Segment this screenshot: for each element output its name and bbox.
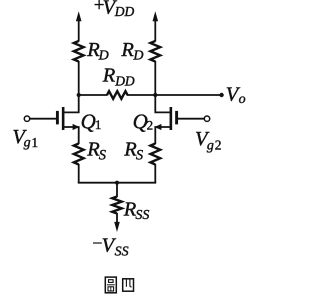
label Vg1 xyxy=(12,126,38,151)
caption character si (four) xyxy=(123,279,134,291)
label RS right xyxy=(123,138,144,163)
resistor RSS xyxy=(112,197,122,214)
caption character tu (figure) xyxy=(105,277,116,293)
wire gate Q1 xyxy=(30,118,56,120)
svg-text:Q: Q xyxy=(81,110,96,134)
node tail junction xyxy=(115,181,119,185)
label RDD xyxy=(102,64,135,88)
svg-text:2: 2 xyxy=(215,138,222,153)
power VDD arrow left xyxy=(76,11,82,41)
power VDD arrow right xyxy=(153,11,159,41)
svg-text:1: 1 xyxy=(95,117,102,132)
svg-text:D: D xyxy=(98,49,109,64)
label Q1 xyxy=(81,110,102,134)
label RD left xyxy=(86,39,109,64)
label RS left xyxy=(86,138,107,163)
label Vo xyxy=(226,84,246,108)
wire right rail RD to drain node xyxy=(154,61,156,95)
svg-text:SS: SS xyxy=(115,244,129,259)
svg-text:SS: SS xyxy=(135,208,149,223)
svg-text:S: S xyxy=(136,147,144,163)
label Vg2 xyxy=(195,128,221,153)
wire gate Q2 xyxy=(178,118,204,120)
svg-text:Q: Q xyxy=(133,109,148,133)
wire left RS to tail xyxy=(78,164,80,183)
node Vo terminal dot xyxy=(219,93,223,97)
wire tail horizontal xyxy=(78,182,156,184)
node Vg2 terminal circle xyxy=(204,116,209,121)
svg-text:1: 1 xyxy=(31,135,38,150)
wire drain row left lead xyxy=(79,94,108,96)
svg-text:g: g xyxy=(24,136,31,151)
node left drain junction xyxy=(77,93,81,97)
power VSS arrow down xyxy=(114,213,120,232)
svg-text:S: S xyxy=(99,147,107,163)
svg-text:D: D xyxy=(132,49,143,64)
svg-text:DD: DD xyxy=(114,4,135,19)
label Q2 xyxy=(133,109,154,133)
label +VDD xyxy=(94,0,135,19)
svg-text:o: o xyxy=(239,92,246,107)
resistor RDD xyxy=(107,91,128,99)
node Vg1 terminal circle xyxy=(24,116,29,121)
wire left rail RD to drain node xyxy=(78,61,80,95)
wire drain row right lead xyxy=(127,94,155,96)
transistor Q2 xyxy=(155,94,177,144)
svg-text:R: R xyxy=(120,39,134,61)
wire output to Vo xyxy=(155,94,220,96)
label RD right xyxy=(120,39,143,64)
node right drain junction xyxy=(153,93,157,97)
resistor RD left xyxy=(74,41,84,62)
resistor RD right xyxy=(150,41,160,62)
svg-text:DD: DD xyxy=(114,74,135,89)
wire tail to RSS xyxy=(116,183,118,197)
label -VSS xyxy=(92,233,128,260)
resistor RS left xyxy=(74,144,84,165)
resistor RS right xyxy=(150,144,160,165)
label RSS xyxy=(123,199,150,223)
svg-text:g: g xyxy=(207,138,214,153)
wire right RS to tail xyxy=(154,164,156,183)
transistor Q1 xyxy=(57,94,79,144)
svg-text:2: 2 xyxy=(147,118,154,133)
svg-text:R: R xyxy=(102,64,116,86)
